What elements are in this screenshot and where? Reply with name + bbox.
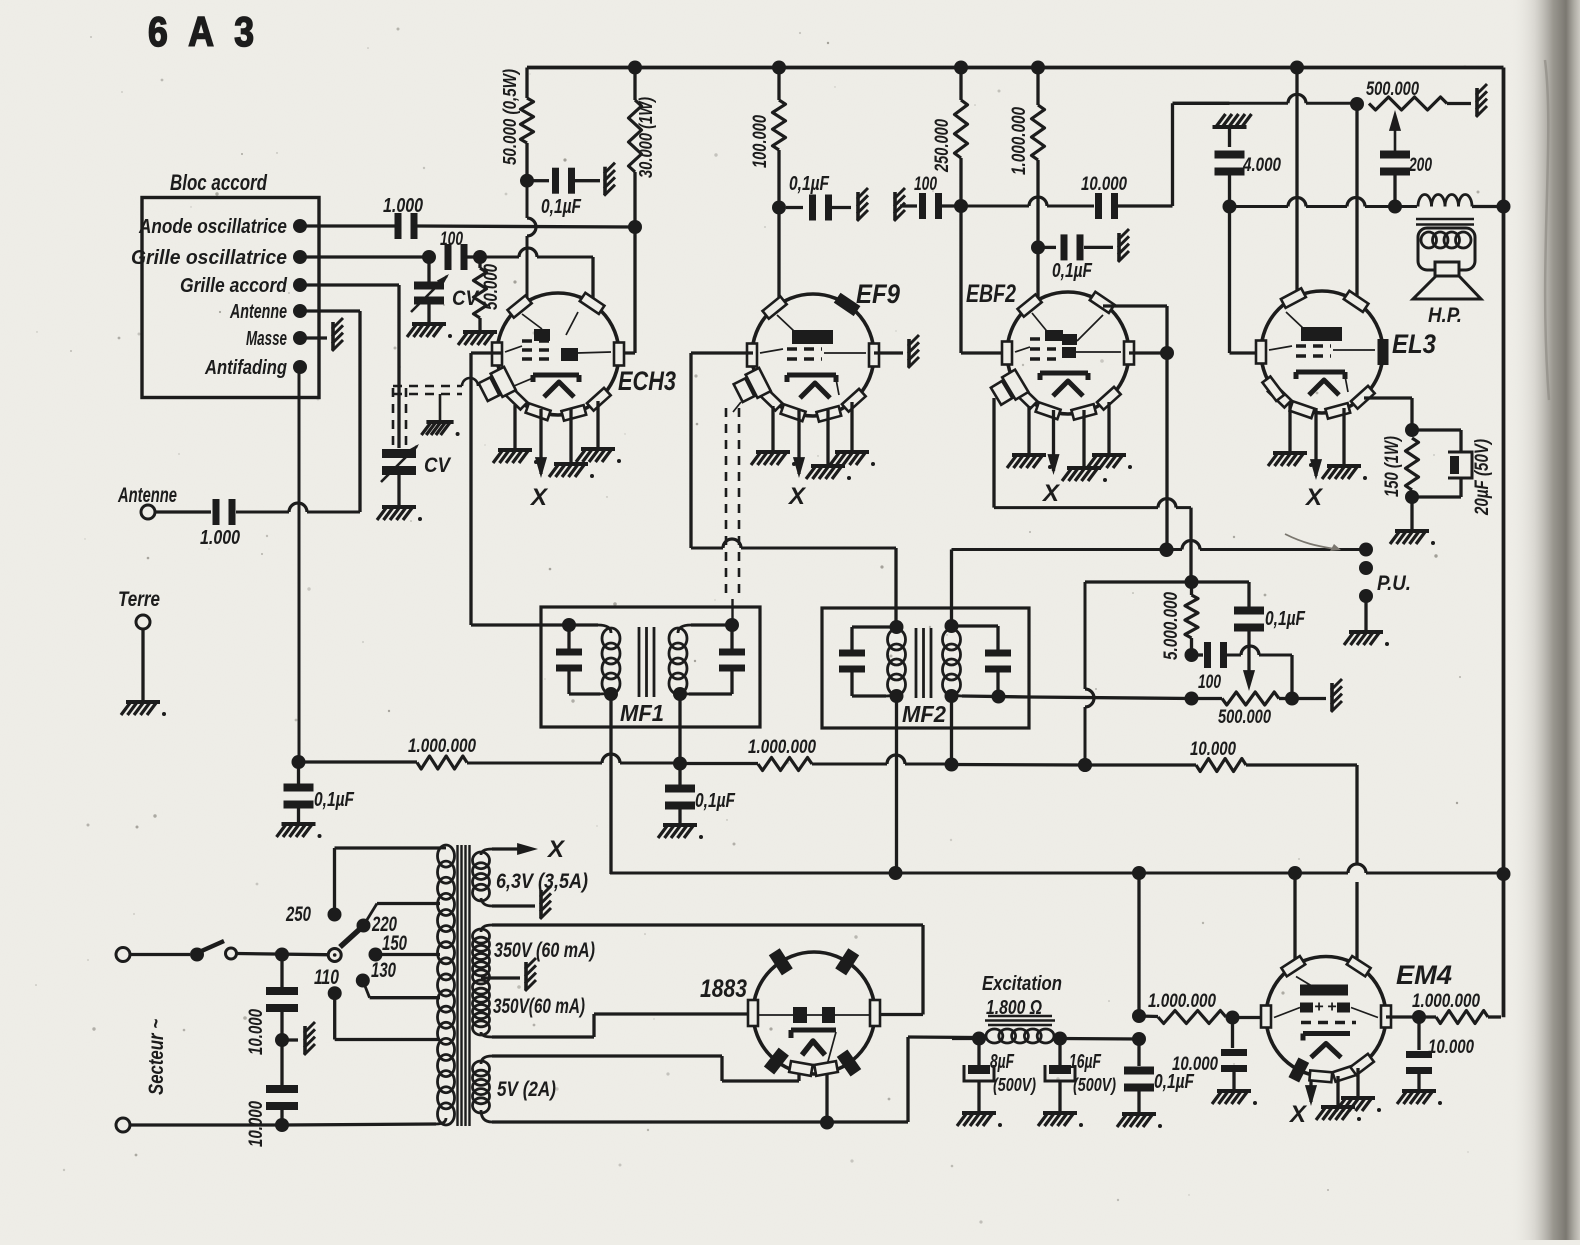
tube 1883 — [700, 948, 880, 1076]
resistor 100.000 — [750, 68, 786, 215]
resistor 1.000.000 (AVC 1) — [299, 736, 681, 769]
resistor 50.000 (osc grid leak) — [458, 257, 503, 346]
wire to 30.000 — [417, 226, 635, 227]
svg-text:100: 100 — [440, 229, 463, 250]
EL3 cathode grounds — [1268, 404, 1367, 480]
top B+ bus — [527, 61, 1504, 75]
svg-text:200: 200 — [1408, 155, 1432, 176]
svg-text:50.000 (0,5W): 50.000 (0,5W) — [499, 69, 520, 165]
svg-text:16µF: 16µF — [1069, 1051, 1102, 1073]
transformer tap 220 — [357, 904, 441, 937]
Bloc accord box — [142, 170, 319, 398]
Secteur input — [116, 948, 282, 1133]
svg-text:Grille accord: Grille accord — [180, 274, 287, 297]
svg-text:10.000: 10.000 — [1172, 1054, 1218, 1075]
svg-text:1.000.000: 1.000.000 — [748, 737, 816, 758]
selector wiper — [328, 928, 361, 962]
svg-text:1.000.000: 1.000.000 — [1009, 107, 1030, 175]
wire pot tap to EL3 — [1355, 104, 1358, 306]
EF9 suppressor ground — [874, 335, 919, 368]
title 6A3 — [148, 8, 260, 55]
svg-text:0,1µF: 0,1µF — [541, 196, 582, 218]
wire detector node to AVC rail — [1078, 582, 1192, 772]
transformer tap 150 — [369, 932, 441, 962]
svg-text:0,1µF: 0,1µF — [789, 173, 830, 195]
output transformer secondary + speaker H.P. — [1413, 228, 1481, 327]
svg-text:0,1µF: 0,1µF — [314, 789, 355, 811]
svg-text:Bloc accord: Bloc accord — [170, 170, 267, 195]
svg-text:110: 110 — [314, 966, 339, 989]
svg-text:EBF2: EBF2 — [966, 280, 1016, 308]
capacitor 200 — [1380, 151, 1432, 207]
svg-text:(500V): (500V) — [993, 1075, 1036, 1095]
svg-text:100.000: 100.000 — [750, 115, 771, 168]
heater/AVC line 872 — [610, 864, 1504, 880]
svg-text:250: 250 — [285, 903, 311, 926]
svg-text:0,1µF: 0,1µF — [695, 790, 736, 812]
svg-text:EM4: EM4 — [1396, 960, 1452, 990]
svg-text:X: X — [546, 836, 566, 863]
EM4 heater X — [1288, 1080, 1317, 1128]
resistor 250.000 — [932, 68, 968, 207]
svg-text:100: 100 — [1198, 672, 1221, 693]
wire ECH3 to MF1 — [471, 353, 569, 625]
transformer tap 130 — [356, 959, 440, 998]
audio line 206 — [1230, 198, 1418, 214]
IF transformer MF1 box — [541, 607, 760, 727]
wire MF1 secondary return — [673, 694, 687, 771]
wire B+ to EM4 node — [1132, 873, 1146, 1046]
MF2 secondary — [943, 619, 1030, 704]
svg-text:10.000: 10.000 — [1190, 739, 1236, 760]
wire 350V upper to 1883 plate — [492, 925, 923, 1015]
resistor 10.000 (AVC) — [1085, 739, 1357, 772]
wire 350V lower to 1883 plate — [492, 1014, 753, 1037]
resistor 5.000.000 — [1161, 582, 1199, 662]
wire anode oscillatrice — [300, 224, 395, 227]
AVC rail to 10.000 — [952, 758, 1093, 772]
svg-text:8µF: 8µF — [990, 1051, 1015, 1073]
svg-text:50.000: 50.000 — [481, 264, 502, 310]
wire ECH3 osc anode — [527, 187, 536, 301]
capacitor 8µF (500V) — [957, 1039, 1036, 1128]
wire AVC to EM4 grid — [1355, 765, 1358, 962]
wire EBF2 spout to detector node — [994, 398, 1199, 589]
ECH3 cathode grounds — [493, 401, 621, 478]
svg-text:1.000: 1.000 — [383, 195, 423, 217]
mains rail to primary — [282, 1118, 446, 1125]
svg-text:X: X — [1304, 484, 1324, 511]
svg-text:ECH3: ECH3 — [618, 366, 676, 396]
svg-text:+: + — [1327, 999, 1336, 1016]
capacitor 10.000 (mains lower) — [246, 1040, 298, 1147]
winding 350V upper — [473, 925, 596, 991]
svg-text:6 A 3: 6 A 3 — [148, 8, 260, 55]
capacitor 0,1µF (detector) — [1192, 582, 1306, 691]
wire antifading down — [298, 367, 301, 761]
output transformer primary — [1416, 195, 1504, 225]
svg-text:10.000: 10.000 — [1081, 174, 1127, 195]
transformer tap 110 — [314, 966, 440, 1040]
variable capacitor CV (tuning) — [377, 444, 452, 521]
capacitor 1.000 (antenna) — [200, 499, 240, 549]
svg-text:1.000: 1.000 — [200, 527, 240, 549]
shield dashes (tuning grid) — [393, 378, 478, 448]
capacitor 0,1µF (AVC mid) — [658, 764, 736, 840]
tube EBF2 — [966, 280, 1134, 420]
wire EBF2 grid — [961, 206, 1007, 353]
svg-text:150: 150 — [382, 932, 407, 955]
resistor 30.000 (1W) — [628, 68, 656, 235]
transformer tap 250 — [285, 848, 440, 926]
svg-text:1.000.000: 1.000.000 — [1148, 991, 1216, 1012]
wire EBF2 screen — [1036, 254, 1039, 299]
power transformer primary — [438, 845, 455, 1125]
capacitor 100 (detector) — [1192, 642, 1293, 699]
svg-text:500.000: 500.000 — [1218, 707, 1271, 728]
svg-text:10.000: 10.000 — [246, 1101, 267, 1147]
EL3 heater X — [1304, 408, 1324, 511]
resistor 1.000.000 (EM4 grid) — [1139, 991, 1266, 1025]
MF1 primary — [556, 618, 620, 701]
svg-text:H.P.: H.P. — [1428, 304, 1462, 327]
tube EL3 — [1256, 288, 1436, 418]
capacitor 10.000 (coupling) — [967, 103, 1229, 219]
svg-text:Masse: Masse — [246, 327, 287, 350]
resistor 1.000.000 (EBF2 screen) — [1009, 68, 1045, 255]
svg-text:Excitation: Excitation — [982, 973, 1062, 995]
EBF2 cathode grounds — [1007, 402, 1132, 482]
resistor 1.000.000 (AVC 2) — [680, 737, 952, 771]
wire osc grid to tube — [480, 248, 593, 303]
svg-text:EF9: EF9 — [856, 279, 900, 309]
variable capacitor CV (osc padder) — [407, 263, 480, 338]
svg-text:250.000: 250.000 — [932, 119, 953, 173]
capacitor 100 (osc grid) — [440, 229, 468, 270]
capacitor 1.000 (osc anode) — [383, 195, 423, 239]
wire EM4 anode — [1293, 873, 1296, 960]
EM4 grounds — [1316, 1068, 1381, 1121]
ECH3 heater X — [529, 409, 549, 511]
winding 5V (2A) — [473, 1056, 557, 1122]
MF2 primary — [839, 620, 906, 703]
line 103 with pot 500.000 — [1173, 79, 1488, 117]
potentiometer 500.000 (volume) — [1185, 679, 1343, 728]
svg-text:X: X — [1041, 480, 1061, 507]
EF9 grid shield dashes — [726, 402, 741, 625]
wire MF2 to volume pot — [1029, 697, 1192, 699]
terminal Grille accord — [180, 274, 307, 297]
svg-text:1.000.000: 1.000.000 — [1412, 991, 1480, 1012]
svg-text:0,1µF: 0,1µF — [1265, 608, 1306, 630]
resistor 50.000 (0,5W) — [499, 68, 534, 188]
resistor 1.000.000 (EM4 target) — [1386, 991, 1501, 1024]
svg-text:EL3: EL3 — [1392, 329, 1436, 359]
svg-text:30.000 (1W): 30.000 (1W) — [635, 97, 656, 178]
wire EF9 plate feed — [777, 214, 780, 304]
capacitor 16µF (500V) — [1038, 1039, 1116, 1128]
P.U. jack — [1344, 561, 1411, 646]
capacitor 20µF (50V) — [1412, 430, 1493, 516]
svg-text:X: X — [787, 483, 807, 510]
wire antenna — [236, 311, 360, 512]
capacitor 10.000 (EM4 target) — [1397, 1017, 1474, 1105]
svg-text:0,1µF: 0,1µF — [1052, 260, 1093, 282]
wire grille oscillatrice — [300, 250, 436, 264]
svg-text:10.000: 10.000 — [246, 1009, 267, 1055]
capacitor 10.000 (EM4 grid) — [1172, 1018, 1257, 1106]
wire EL3 cathode — [1364, 398, 1419, 437]
svg-text:MF2: MF2 — [902, 701, 946, 727]
wire 30.000 to ECH3 — [617, 227, 635, 353]
capacitor 4.000 — [1213, 114, 1282, 214]
AVC rail left node — [292, 755, 306, 769]
terminal Anode oscillatrice — [138, 215, 307, 238]
svg-text:Antifading: Antifading — [204, 356, 287, 379]
svg-text:(500V): (500V) — [1073, 1075, 1116, 1095]
bottom rail — [492, 1037, 975, 1130]
wire MF1 primary return — [609, 694, 612, 874]
capacitor 0,1µF (ECH3 anode) — [533, 163, 615, 218]
terminal Antifading — [204, 356, 307, 379]
tube ECH3 — [477, 293, 676, 421]
field coil Excitation 1.800 — [952, 973, 1139, 1046]
mains switch — [190, 941, 335, 962]
winding 350V lower — [473, 980, 586, 1037]
wire 5V to 1883 filament — [492, 1056, 799, 1081]
svg-text:Grille oscillatrice: Grille oscillatrice — [131, 246, 287, 269]
svg-text:350V (60 mA): 350V (60 mA) — [494, 939, 595, 962]
svg-text:100: 100 — [914, 174, 937, 195]
terminal Grille oscillatrice — [131, 246, 307, 269]
EBF2 heater X — [1041, 410, 1061, 507]
wire 4.000 to EL3 grid — [1230, 207, 1268, 354]
svg-text:150 (1W): 150 (1W) — [1382, 436, 1403, 497]
wire MF2 secondary return — [945, 696, 959, 772]
wire MF2 secondary to P.U. — [952, 541, 1374, 627]
power transformer core — [458, 845, 470, 1126]
svg-text:1883: 1883 — [700, 975, 747, 1003]
EBF2 diode wires — [1103, 306, 1174, 557]
svg-text:5.000.000: 5.000.000 — [1161, 592, 1182, 660]
svg-text:MF1: MF1 — [620, 700, 664, 726]
capacitor 10.000 (mains upper) — [246, 948, 298, 1056]
pencil arrow — [1285, 534, 1341, 551]
node osc grid — [467, 250, 487, 264]
svg-text:5V (2A): 5V (2A) — [497, 1078, 556, 1101]
IF transformer MF2 box — [822, 608, 1029, 728]
svg-text:6,3V (3,5A): 6,3V (3,5A) — [496, 870, 588, 893]
svg-text:20µF (50V): 20µF (50V) — [1472, 439, 1493, 516]
capacitor 0,1µF (AVC left) — [277, 762, 355, 838]
Antenne input — [117, 484, 211, 519]
wire EL3 anode — [1295, 68, 1298, 303]
svg-text:X: X — [529, 484, 549, 511]
terminal Masse — [246, 327, 307, 350]
svg-text:CV: CV — [424, 454, 452, 477]
MF1 secondary — [669, 618, 745, 701]
svg-text:+: + — [1314, 999, 1323, 1016]
EF9 cathode grounds — [751, 402, 875, 480]
resistor 150 (1W) — [1382, 436, 1435, 545]
wire grille accord — [300, 285, 399, 448]
Terre input — [118, 588, 166, 716]
MF2 core — [916, 628, 931, 698]
svg-text:P.U.: P.U. — [1377, 572, 1411, 595]
svg-text:500.000: 500.000 — [1366, 79, 1419, 100]
ground + capacitor 100 (EBF2 grid) — [894, 174, 968, 221]
mains ground tap — [282, 1022, 315, 1055]
wire masse to ground — [300, 318, 343, 351]
svg-text:4.000: 4.000 — [1242, 155, 1281, 176]
tube EF9 — [732, 279, 900, 422]
wiper arrow 500.000 — [1389, 110, 1401, 152]
capacitor 0,1µF (EF9 plate) — [786, 173, 868, 221]
right B+ bus — [1497, 68, 1511, 1018]
svg-text:Anode oscillatrice: Anode oscillatrice — [138, 215, 287, 238]
svg-text:Secteur ~: Secteur ~ — [145, 1019, 168, 1095]
capacitor 0,1µF (EM4) — [1117, 1039, 1195, 1128]
capacitor 0,1µF (EBF2 screen) — [1044, 229, 1129, 282]
tube EM4 — [1261, 956, 1452, 1083]
svg-text:1.000.000: 1.000.000 — [408, 736, 476, 757]
svg-text:Terre: Terre — [118, 588, 160, 611]
wire EF9 plate to MF2 — [691, 353, 896, 627]
svg-text:X: X — [1288, 1101, 1308, 1128]
EF9 heater X — [787, 410, 807, 510]
svg-text:Antenne: Antenne — [229, 300, 287, 323]
svg-text:130: 130 — [371, 959, 396, 982]
svg-text:10.000: 10.000 — [1428, 1037, 1474, 1058]
wire MF2 primary return — [895, 700, 898, 874]
MF1 core — [639, 627, 654, 697]
terminal Antenne — [229, 300, 307, 323]
svg-text:350V(60 mA): 350V(60 mA) — [493, 995, 585, 1018]
winding 6,3V (3,5A) — [473, 836, 589, 919]
